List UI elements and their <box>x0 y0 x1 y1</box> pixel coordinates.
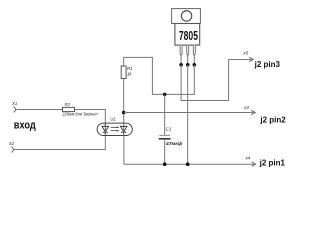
ground rail wire to j2 pin1 <box>124 136 254 164</box>
LED diode of U1 <box>102 123 109 135</box>
svg-text:220ом для 5вольт: 220ом для 5вольт <box>61 112 98 117</box>
wire X2 to U1 LED cathode <box>14 133 105 150</box>
wire pin2 to ground rail <box>187 65 189 164</box>
svg-text:j2 pin1: j2 pin1 <box>259 158 286 167</box>
terminal X2 <box>12 147 15 153</box>
wire pin1 to X5 corner (j2 pin3 net) <box>181 60 251 101</box>
7805 pin 2 <box>187 45 189 56</box>
junction dot C1 branch <box>163 93 167 97</box>
svg-text:j2 pin2: j2 pin2 <box>259 115 286 124</box>
svg-text:R2: R2 <box>65 102 71 107</box>
svg-text:j2 pin3: j2 pin3 <box>254 60 281 69</box>
junction dot C1 on rail <box>163 162 167 166</box>
wire C1 bottom branch <box>164 139 166 164</box>
svg-text:U1: U1 <box>110 116 116 121</box>
optocoupler U1 body <box>97 123 132 135</box>
wire C1 top branch <box>164 94 166 135</box>
resistor R1 <box>121 66 126 79</box>
svg-text:X2: X2 <box>8 141 15 146</box>
resistor R2 <box>63 107 75 111</box>
wire R1 bottom to U1 photodiode <box>123 79 125 127</box>
arrowhead X5 <box>249 57 253 61</box>
wire j2 pin2 net <box>124 112 254 114</box>
junction dot pin2 on rail <box>186 162 190 166</box>
junction dot j2 pin2 tap <box>122 111 126 115</box>
voltage regulator 7805 tab <box>172 9 201 24</box>
light arrows of U1 <box>111 127 120 132</box>
svg-text:7805: 7805 <box>179 29 198 43</box>
wire pin3 to R1 top <box>124 57 195 94</box>
7805 pin 1 <box>180 45 182 56</box>
junction dot pin3 <box>193 63 197 67</box>
terminal X1 <box>14 107 17 113</box>
wire pin1 stub <box>180 56 182 65</box>
junction dot pin2 <box>186 63 190 67</box>
svg-text:47мкф: 47мкф <box>165 140 183 147</box>
svg-text:R1: R1 <box>127 66 133 71</box>
svg-text:C1: C1 <box>166 126 172 131</box>
svg-text:x4: x4 <box>245 156 251 161</box>
svg-text:X1: X1 <box>11 101 18 106</box>
7805 pin 3 <box>193 45 195 56</box>
wire R2 to U1 LED anode <box>75 110 106 127</box>
wire pin2 stub <box>187 56 189 65</box>
arrowhead X3 <box>251 110 255 114</box>
arrowhead X4 <box>252 162 256 166</box>
svg-text:вход: вход <box>14 120 36 132</box>
capacitor C1 <box>159 135 171 138</box>
svg-text:x3: x3 <box>243 105 249 110</box>
junction dot pin1 <box>179 63 183 67</box>
wire pin3 stub <box>193 56 195 65</box>
photodiode of U1 <box>120 126 127 135</box>
voltage regulator 7805 body <box>175 24 200 46</box>
wire X1 to R2 <box>16 109 62 111</box>
svg-text:x5: x5 <box>242 51 248 56</box>
